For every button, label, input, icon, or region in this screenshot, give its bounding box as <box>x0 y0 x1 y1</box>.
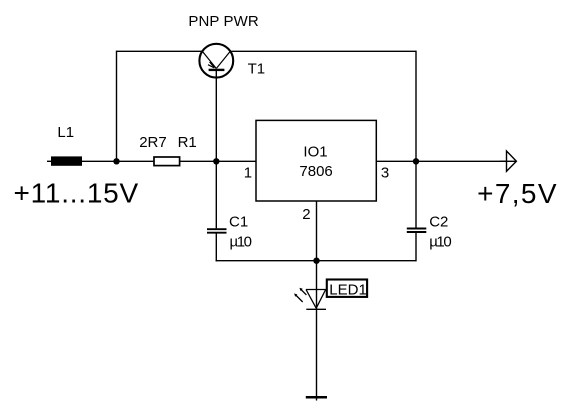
svg-text:µ10: µ10 <box>429 234 452 251</box>
svg-text:LED1: LED1 <box>329 282 367 299</box>
svg-text:+11...15V: +11...15V <box>14 177 139 208</box>
svg-text:2: 2 <box>302 206 310 223</box>
svg-text:µ10: µ10 <box>230 234 253 251</box>
svg-text:C2: C2 <box>429 213 448 230</box>
svg-text:7806: 7806 <box>299 163 332 180</box>
svg-text:3: 3 <box>381 165 389 182</box>
svg-text:PNP PWR: PNP PWR <box>188 13 258 30</box>
svg-text:T1: T1 <box>248 61 266 78</box>
svg-text:L1: L1 <box>57 124 74 141</box>
svg-text:C1: C1 <box>229 213 248 230</box>
svg-text:1: 1 <box>244 165 252 182</box>
svg-text:R1: R1 <box>178 134 197 151</box>
svg-text:IO1: IO1 <box>303 144 327 161</box>
svg-text:2R7: 2R7 <box>139 134 167 151</box>
svg-text:+7,5V: +7,5V <box>477 178 557 209</box>
